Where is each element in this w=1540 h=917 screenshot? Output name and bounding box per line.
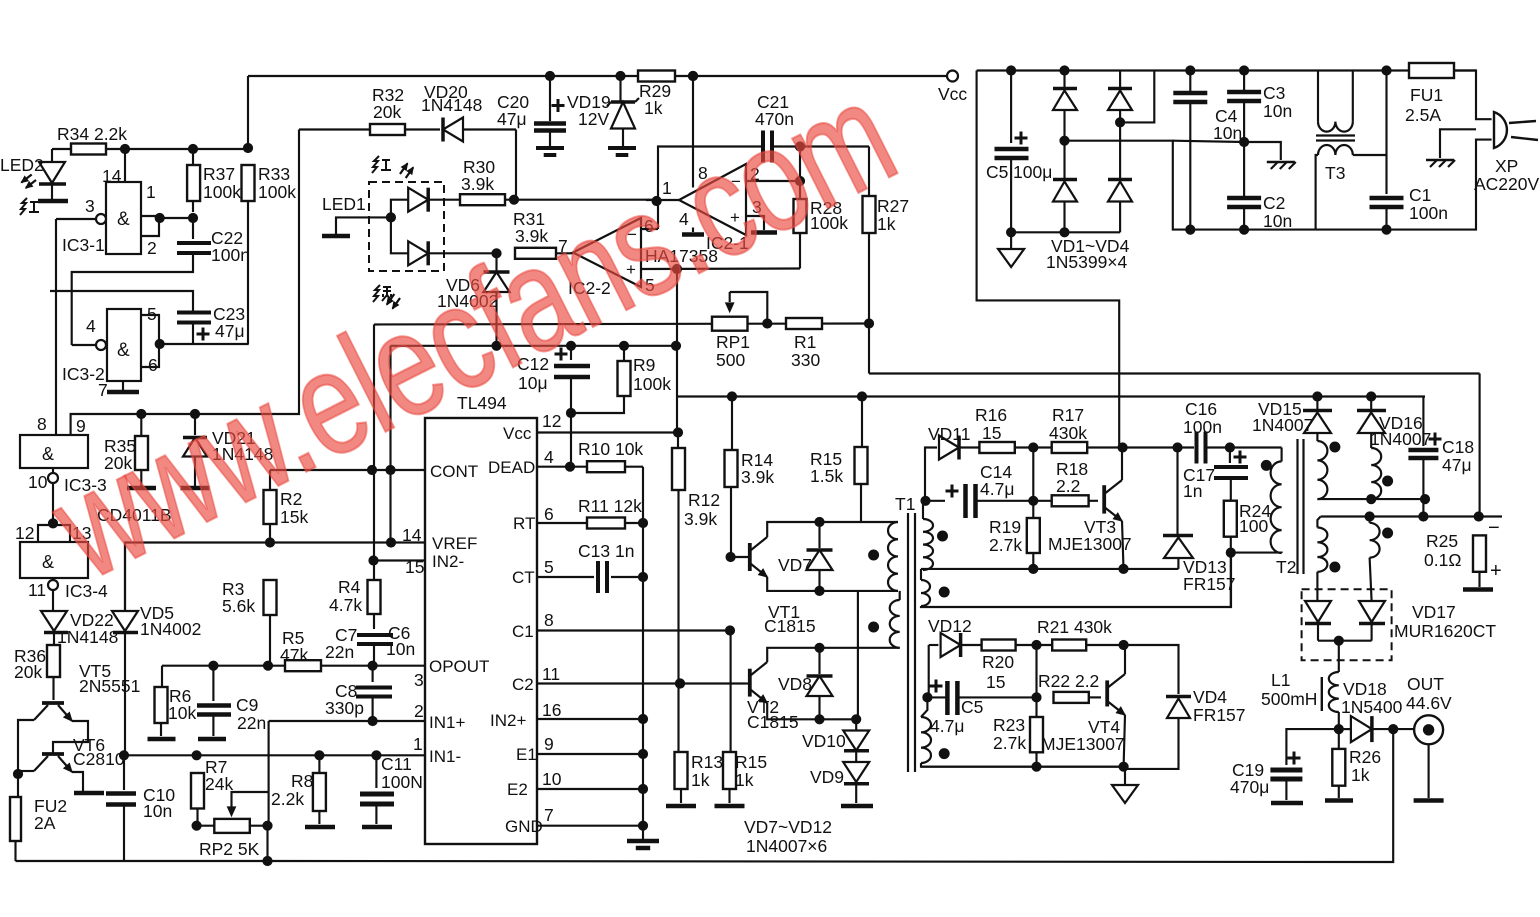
wire feedback bottom rail [268, 729, 1394, 862]
svg-text:&: & [117, 209, 130, 230]
svg-text:12: 12 [542, 411, 561, 431]
svg-text:R19: R19 [989, 517, 1021, 537]
wire IC3-2 output to R33 bottom [160, 343, 249, 345]
wire IN2- line [374, 559, 425, 561]
svg-text:RP2 5K: RP2 5K [199, 839, 260, 859]
T1 left winding lower [890, 600, 900, 648]
diode VD17 second half [1370, 558, 1372, 601]
svg-text:470μ: 470μ [1230, 777, 1269, 797]
svg-text:C5: C5 [961, 697, 983, 717]
capacitor C5 4.7u polarized [927, 696, 945, 698]
resistor R34 [71, 144, 106, 155]
svg-text:FR157: FR157 [1193, 705, 1246, 725]
svg-text:R20: R20 [982, 652, 1014, 672]
wire AC section top rail [977, 69, 1476, 71]
wire VT4 emitter [1124, 715, 1125, 767]
svg-text:C1815: C1815 [747, 712, 799, 732]
resistor R14 3.9k [731, 397, 733, 451]
capacitor C8 [372, 666, 374, 682]
svg-text:16: 16 [542, 700, 561, 720]
svg-text:100: 100 [1239, 516, 1268, 536]
wire pin3 net down to IC3-3 pin8 [55, 219, 57, 435]
T1 phase dot right top [938, 531, 948, 541]
svg-text:4.7μ: 4.7μ [930, 716, 964, 736]
plug XP AC220V [1494, 112, 1507, 148]
wire from R1 node down to sense rail [868, 324, 870, 374]
wire VT2 collector to winding mid [767, 648, 900, 662]
pins 12 13 bracket of IC3-4 [38, 525, 70, 542]
ground bar C9 [198, 737, 226, 742]
diode VD4 FR157 snubber [1124, 645, 1179, 694]
wire pin11 to VD22 [52, 590, 54, 611]
svg-text:MJE13007: MJE13007 [1041, 734, 1125, 754]
resistor R6 [161, 666, 163, 687]
svg-text:IN2+: IN2+ [490, 711, 526, 730]
svg-text:12: 12 [15, 523, 34, 543]
svg-text:OPOUT: OPOUT [429, 657, 489, 676]
svg-text:1: 1 [146, 182, 156, 202]
IC U1 TL494 box [425, 418, 537, 844]
svg-text:MUR1620CT: MUR1620CT [1394, 621, 1496, 641]
svg-text:C5: C5 [986, 162, 1008, 182]
svg-text:0.1Ω: 0.1Ω [1424, 550, 1461, 570]
wire rail y=396 from pin5 riser to T2 area [678, 395, 1425, 397]
T1 right winding mid primary [921, 580, 930, 606]
svg-text:22n: 22n [237, 713, 266, 733]
wire VT3 collector [1121, 448, 1123, 481]
svg-text:2N5551: 2N5551 [79, 676, 140, 696]
potentiometer RP1 500 [712, 317, 748, 331]
svg-text:10n: 10n [1213, 123, 1242, 143]
LED1 dashed box [369, 182, 444, 271]
ground bar VT6 emitter [74, 791, 104, 796]
node VD21 top [190, 409, 199, 418]
ground triangle C5 [1007, 228, 1016, 237]
svg-text:100n: 100n [1183, 417, 1222, 437]
svg-text:47μ: 47μ [215, 321, 245, 341]
T1 right winding top drive [923, 519, 933, 570]
svg-text:Vcc: Vcc [503, 424, 532, 443]
chassis ground C3 C2 mid [1267, 161, 1295, 164]
svg-text:4.7μ: 4.7μ [980, 479, 1014, 499]
T1 core lines [907, 513, 909, 772]
svg-text:47k: 47k [280, 645, 308, 665]
T2 right winding sec4 [1369, 517, 1371, 523]
resistor R19 2.7k [1027, 518, 1040, 553]
wire AC left border [976, 71, 978, 77]
resistor R10 10k [587, 461, 625, 472]
svg-text:15: 15 [986, 672, 1005, 692]
wire C14 node [921, 496, 930, 505]
wire C1 pin 8 line [537, 629, 730, 631]
diode VD10 [855, 719, 857, 730]
svg-text:2: 2 [414, 701, 424, 721]
wire RT pin 6 line with R11 [537, 522, 587, 524]
wire OUT ground stem [1428, 744, 1430, 798]
ground bar R13 [666, 804, 696, 809]
node VD5 to IN1- line [119, 751, 128, 760]
svg-text:R13: R13 [691, 752, 723, 772]
svg-text:R33: R33 [258, 164, 290, 184]
svg-text:CT: CT [512, 568, 535, 587]
T2 right winding sec1 [1316, 433, 1318, 441]
capacitor C13 1n [596, 561, 600, 593]
svg-text:3: 3 [414, 670, 424, 690]
svg-text:R37: R37 [203, 164, 235, 184]
svg-text:1.5k: 1.5k [810, 466, 843, 486]
pin 4 inverter input of IC3-2 [96, 340, 106, 350]
svg-text:44.6V: 44.6V [1406, 693, 1452, 713]
wire C2 pin 11 line [537, 682, 745, 684]
svg-text:VD8: VD8 [778, 674, 812, 694]
svg-text:C2: C2 [1263, 193, 1285, 213]
resistor R3 [264, 580, 277, 615]
ground bar IC3-2 pin7 [107, 390, 139, 395]
wire C23 top net [50, 291, 193, 311]
bridge diode VD4 of VD1-VD4 [1119, 122, 1121, 178]
wire IN2+ pin 16 line [537, 718, 643, 720]
ground bars C20 [536, 146, 564, 150]
riser line2 from C12 wire to VREF [389, 346, 391, 543]
svg-text:1N4007×6: 1N4007×6 [746, 836, 827, 856]
resistor R35 [140, 414, 142, 436]
svg-text:R23: R23 [993, 715, 1025, 735]
fuse FU1 2.5A [1409, 63, 1454, 78]
wire VT2 emitter to lower wire [767, 703, 858, 719]
ground triangle VT4 emitter [1124, 767, 1126, 785]
T1 phase dot right mid [939, 587, 949, 597]
resistor R8 [313, 773, 326, 811]
svg-text:100μ: 100μ [1013, 162, 1052, 182]
diode VD9 [855, 751, 857, 761]
wire VT6 collector to left rail [18, 770, 34, 772]
transistor VT5 2N5551 [42, 701, 64, 705]
resistor R32 20k [370, 124, 405, 135]
transformer T2 left primary winding [1271, 461, 1282, 553]
svg-text:&: & [42, 552, 54, 572]
wire VT3 block top rail y=447 [925, 448, 937, 501]
capacitor C2 10n [1227, 196, 1261, 201]
capacitor C11 [375, 755, 377, 788]
svg-text:47μ: 47μ [497, 109, 527, 129]
T1 phase dot left lower [869, 622, 879, 632]
wire T3 lower right to C1 column [1353, 154, 1387, 156]
diode VD21 1N4148 [194, 414, 196, 435]
resistor R31 3.9k [515, 248, 556, 259]
wire Vcc pin 12 line [537, 431, 678, 433]
resistor R26 1k [1338, 729, 1340, 749]
svg-text:R25: R25 [1426, 531, 1458, 551]
ground bar IC2-1 pin3 [751, 230, 777, 235]
svg-text:C1: C1 [1409, 185, 1431, 205]
svg-text:8: 8 [37, 414, 47, 434]
wire T3 upper right to fuse [1352, 71, 1354, 122]
svg-text:10n: 10n [143, 801, 172, 821]
resistor R5 [285, 660, 321, 671]
vertical bus joining RT CT IN2+ E1 E2 GND [642, 467, 644, 840]
svg-text:1N4007: 1N4007 [1252, 415, 1313, 435]
svg-text:1N4007: 1N4007 [1370, 429, 1431, 449]
T1 phase dot right bottom [939, 749, 949, 759]
diode VD11 [939, 436, 959, 460]
wire VT6 emitter to ground [72, 772, 83, 791]
wire R19 column [1032, 448, 1034, 519]
svg-text:E2: E2 [507, 780, 528, 799]
resistor R18 2.2 [1033, 500, 1051, 502]
T2 core lines [1296, 439, 1298, 574]
wire sense rail y=373 from R1 node to R25 [869, 372, 1480, 374]
wire sense rail drop to R25 node [1479, 374, 1481, 517]
svg-text:4.7k: 4.7k [329, 595, 362, 615]
wire C16 node to T2 primary top [1281, 448, 1283, 462]
capacitor C17 1n [1229, 448, 1231, 464]
resistor R2 [269, 470, 271, 490]
wire rail y=324 RP1 R1 [374, 324, 869, 325]
capacitor C1 100n [1385, 71, 1387, 195]
LED upper red inside LED1 box [391, 200, 408, 218]
pin 10 inverter output of IC3-3 [52, 468, 54, 473]
resistor R17 430k [1052, 442, 1088, 453]
wire VT4 collector [1124, 645, 1126, 674]
ground bar R15 lower [715, 804, 745, 809]
capacitor C9 [212, 666, 214, 701]
wire VD7 anode node down to VD8 anode node [857, 591, 859, 719]
bridge diode VD2 [1063, 141, 1065, 178]
T2 right winding sec2 [1370, 433, 1372, 448]
svg-text:R15: R15 [735, 752, 767, 772]
svg-text:11: 11 [542, 664, 560, 684]
svg-text:R12: R12 [688, 490, 720, 510]
wire RP2 to bottom rail [266, 826, 268, 861]
svg-text:430k: 430k [1049, 423, 1087, 443]
diode VD5 1N4002 [124, 543, 126, 612]
resistor R36 [47, 645, 60, 677]
resistor R15 1.5k [861, 397, 863, 448]
wire bottom rail y=569 [921, 568, 1178, 570]
wire VD12 input from C5 node [929, 644, 939, 646]
svg-text:Vcc: Vcc [938, 84, 967, 104]
diode VD15 1N4007 [1316, 397, 1318, 410]
transistor VT2 C1815 [748, 669, 752, 697]
capacitor C23 polarized [177, 311, 211, 315]
svg-text:R9: R9 [633, 355, 655, 375]
wire bridge bottom rail [1011, 231, 1120, 233]
svg-text:2.7k: 2.7k [989, 535, 1022, 555]
svg-text:10n: 10n [1263, 211, 1292, 231]
svg-text:22n: 22n [325, 642, 354, 662]
svg-text:R11 12k: R11 12k [578, 496, 642, 516]
ground bar TL494 GND [627, 839, 659, 844]
svg-text:1N5399×4: 1N5399×4 [1046, 252, 1128, 272]
wire DEAD pin 4 line with R10 [537, 466, 587, 468]
diode VD12 [941, 633, 961, 657]
potentiometer RP2 5K [192, 821, 201, 830]
svg-text:3.9k: 3.9k [461, 174, 494, 194]
op-amp IC2-2 half of HA17358 [573, 218, 641, 287]
transistor VT6 C2810 [42, 752, 64, 756]
svg-text:C16: C16 [1185, 399, 1217, 419]
svg-text:C2: C2 [512, 675, 534, 694]
resistor R9 100k [619, 341, 628, 350]
capacitor C4 10n [1173, 91, 1207, 96]
svg-text:1N4002: 1N4002 [140, 619, 201, 639]
T2 phase dot sec1 [1330, 442, 1340, 452]
svg-text:C1815: C1815 [764, 616, 816, 636]
svg-text:VD10: VD10 [802, 731, 846, 751]
diode VD17 first half MUR1620CT [1316, 572, 1318, 601]
wire T1 bottom winding to VT4 emitter rail [921, 763, 1124, 767]
svg-text:FU1: FU1 [1410, 85, 1443, 105]
svg-text:1n: 1n [1183, 481, 1202, 501]
pin 5 wire of IC2-2 [641, 267, 800, 270]
svg-text:VD11: VD11 [928, 424, 970, 444]
wire sec join y=499 [1317, 498, 1425, 500]
svg-text:RT: RT [513, 514, 535, 533]
T3 core lines [1316, 134, 1355, 136]
capacitor C14 4.7u polarized [963, 484, 968, 518]
capacitor C3 10n [1227, 90, 1261, 95]
capacitor C21 470n [761, 131, 765, 163]
label green arrows [373, 285, 392, 302]
wire VD17 cathodes join [1318, 640, 1372, 642]
T2 phase dot sec4 [1383, 528, 1393, 538]
svg-text:20k: 20k [14, 662, 42, 682]
resistor R24 100 [1230, 478, 1232, 501]
svg-text:4: 4 [86, 316, 96, 336]
transformer T3 common mode choke upper winding [1317, 71, 1319, 122]
capacitor C16 100n [1195, 432, 1199, 464]
svg-text:R16: R16 [975, 405, 1007, 425]
svg-text:1N4148: 1N4148 [421, 95, 482, 115]
svg-text:R10 10k: R10 10k [578, 439, 643, 459]
T2 phase dot sec3 [1330, 562, 1340, 572]
zener diode VD19 12V [619, 76, 621, 102]
T2 right winding sec3 [1317, 517, 1320, 528]
wire output node y=516 [1321, 515, 1502, 517]
svg-text:E1: E1 [516, 745, 537, 764]
svg-text:RP1: RP1 [716, 332, 750, 352]
svg-text:T2: T2 [1276, 557, 1296, 577]
svg-text:AC220V: AC220V [1474, 174, 1540, 194]
wire fuse to plug [1454, 71, 1492, 120]
svg-text:3.9k: 3.9k [741, 467, 774, 487]
resistor R22 2.2 [1054, 692, 1089, 703]
svg-text:R34 2.2k: R34 2.2k [57, 124, 127, 144]
ground bars VD19 [608, 146, 636, 150]
svg-text:C2810: C2810 [73, 749, 125, 769]
svg-text:IC3-1: IC3-1 [62, 235, 105, 255]
wire VT5 emitter to VT6 base [53, 721, 88, 753]
ground bar C11 [362, 825, 392, 830]
svg-text:24k: 24k [205, 774, 233, 794]
pin 3 wire of IC2-1 to ground [746, 216, 764, 230]
wire R21 node to R22 node [1035, 645, 1037, 697]
LED2 emission arrows [26, 180, 36, 188]
svg-text:IN2-: IN2- [432, 552, 464, 571]
svg-text:VREF: VREF [432, 534, 477, 553]
node junction R33 top [243, 143, 252, 152]
wire C22 bottom to IC3-2 pin4 [72, 253, 193, 345]
LED lower green inside LED1 box [391, 217, 408, 253]
diode VD16 1N4007 [1370, 397, 1372, 410]
T2 phase dot sec2 [1383, 476, 1393, 486]
svg-text:7: 7 [98, 380, 108, 400]
diode VD13 FR157 [1176, 448, 1178, 536]
wire VT1 collector to top wire [767, 522, 898, 537]
svg-text:1k: 1k [1351, 765, 1370, 785]
svg-text:11: 11 [28, 580, 46, 600]
svg-text:2.2: 2.2 [1056, 476, 1080, 496]
chassis ground plug [1440, 129, 1476, 158]
svg-text:14: 14 [402, 525, 422, 545]
pins 5 6 tie bracket of IC3-2 [141, 315, 159, 367]
RP2 wiper arrow [232, 792, 268, 812]
svg-text:1k: 1k [644, 98, 663, 118]
svg-text:10k: 10k [168, 703, 196, 723]
svg-text:VD4: VD4 [1193, 687, 1227, 707]
svg-text:XP: XP [1495, 156, 1518, 176]
resistor R27 1k [868, 147, 870, 197]
pin 8 supply wire of IC2-1 [692, 76, 694, 188]
resistor R13 1k [675, 679, 684, 688]
resistor R37 [192, 149, 194, 165]
svg-text:1k: 1k [691, 770, 710, 790]
transistor VT3 MJE13007 [1102, 485, 1106, 513]
diode VD6 1N4002 [492, 249, 501, 258]
resistor R4 [368, 580, 381, 614]
ground bar C19 [1271, 801, 1303, 806]
wire VT1 emitter to mid wire [767, 577, 898, 591]
svg-text:100N: 100N [381, 772, 423, 792]
svg-text:7: 7 [544, 805, 554, 825]
svg-text:R1: R1 [794, 332, 816, 352]
svg-text:5.6k: 5.6k [222, 596, 255, 616]
node VD18 cathode [1372, 728, 1393, 730]
pin 7 of IC3-2 to ground [122, 381, 124, 390]
wire bottom rail left end [16, 860, 268, 862]
wire R34 top horizontal [52, 148, 248, 150]
ground bar IC2-1 pin4 [692, 228, 694, 233]
svg-text:8: 8 [544, 610, 554, 630]
svg-text:2A: 2A [34, 813, 56, 833]
wire T1 mid winding bottom to R24 bottom rail [921, 553, 1231, 607]
wire OPOUT line [162, 665, 425, 667]
svg-text:47μ: 47μ [1442, 455, 1472, 475]
resistor R11 12k [587, 518, 625, 529]
svg-text:12V: 12V [578, 109, 609, 129]
svg-text:3.9k: 3.9k [684, 509, 717, 529]
svg-text:R8: R8 [291, 771, 313, 791]
svg-text:CONT: CONT [430, 462, 478, 481]
svg-text:2.7k: 2.7k [993, 733, 1026, 753]
IC3-4 NAND gate CD4011B unit 4 [20, 542, 88, 578]
wire C2 line to VT2 base [745, 682, 750, 684]
bridge diode VD1 [1063, 71, 1065, 88]
diode VD18 1N5400 [1339, 728, 1351, 730]
svg-text:10n: 10n [1263, 101, 1292, 121]
T1 phase dot left upper [869, 550, 879, 560]
capacitor C22 [192, 218, 194, 239]
pin 6 wire of IC2-2 [641, 228, 658, 230]
svg-text:T1: T1 [895, 494, 915, 514]
svg-text:3: 3 [85, 196, 95, 216]
wire GND pin 7 line [537, 825, 643, 827]
resistor R25 0.1 ohm current sense [1473, 535, 1486, 571]
capacitor C10 [123, 755, 125, 790]
VD17 dashed box [1302, 589, 1392, 660]
pin 2 wire of IC2-1 [746, 180, 800, 182]
resistor R1 330 [786, 318, 822, 329]
